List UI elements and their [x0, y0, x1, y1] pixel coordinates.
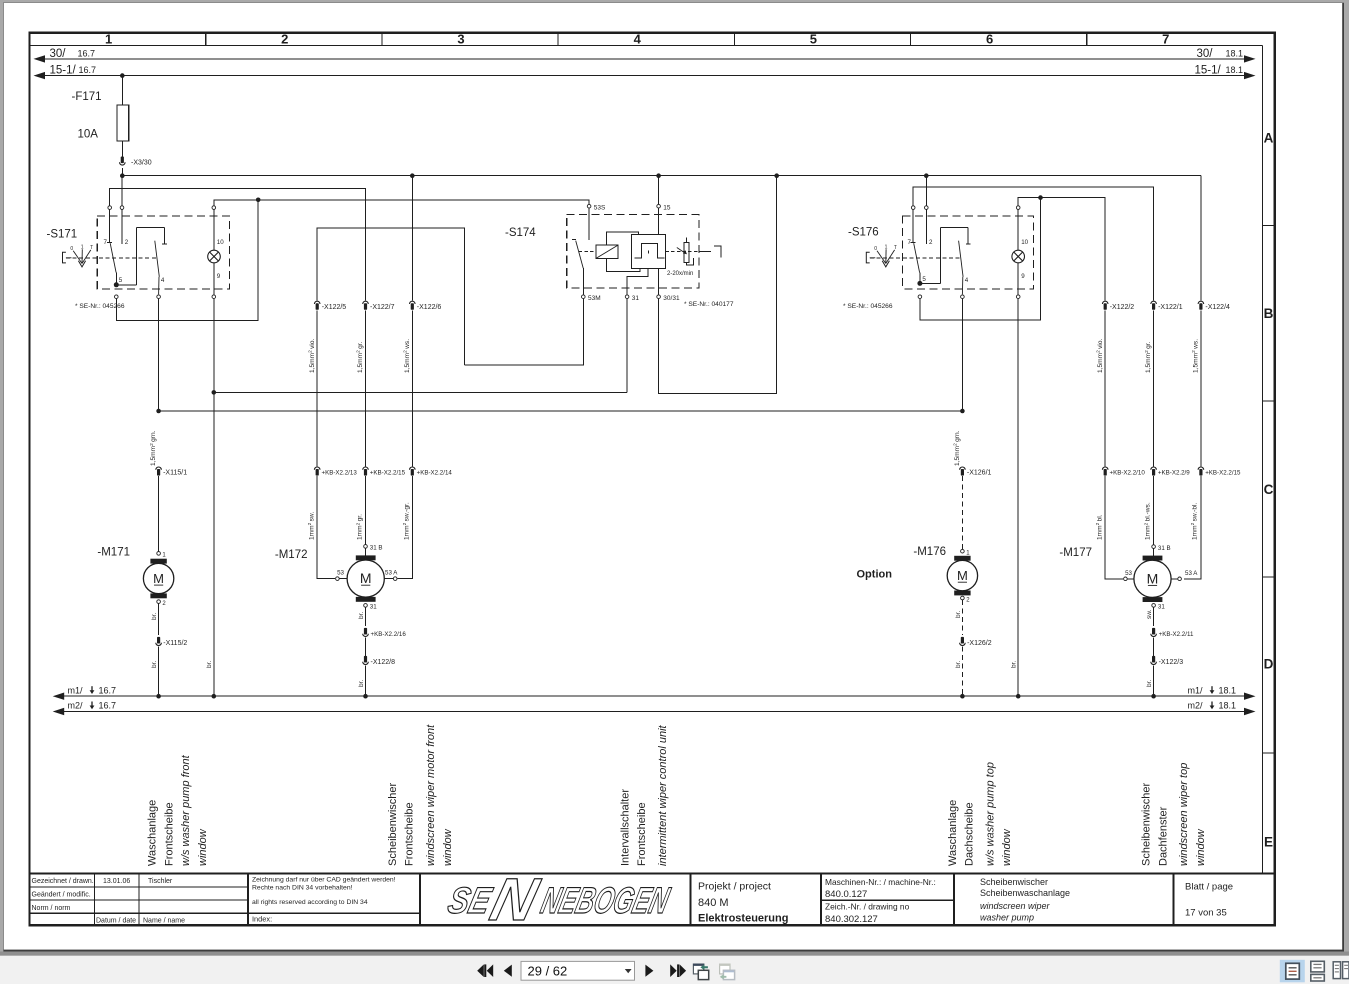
svg-text:1,5mm2 vio.: 1,5mm2 vio.: [307, 338, 315, 373]
junction S176 pin5: [917, 281, 922, 286]
rail m1 left arrow: [53, 693, 64, 700]
svg-text:Option: Option: [857, 569, 893, 581]
title block drawn row: [32, 878, 186, 924]
junction bus30 X122/6: [410, 173, 415, 178]
svg-text:M: M: [153, 571, 164, 586]
svg-text:13.01.06: 13.01.06: [103, 878, 130, 885]
svg-text:Intervallschalter: Intervallschalter: [619, 789, 631, 866]
S176 contact 7-5: [910, 210, 920, 284]
wire X115/1 to M171: [158, 476, 160, 551]
svg-text:m1/: m1/: [1188, 685, 1204, 695]
svg-text:840.302.127: 840.302.127: [825, 914, 878, 925]
S174 output step symbol: [699, 246, 721, 258]
svg-text:7: 7: [1162, 32, 1169, 47]
svg-text:window: window: [442, 828, 454, 866]
svg-text:4: 4: [634, 32, 642, 47]
svg-text:-S171: -S171: [47, 229, 78, 241]
svg-text:-X122/3: -X122/3: [1159, 659, 1184, 666]
wire KB15 to M177 pin53A: [1184, 476, 1201, 579]
junction m1 M176: [960, 694, 965, 699]
svg-text:53 A: 53 A: [385, 570, 398, 577]
svg-text:30/31: 30/31: [663, 295, 680, 302]
svg-text:C: C: [1264, 482, 1274, 497]
wire KB9 to M177 pin31B: [1153, 476, 1155, 544]
wire M172 pin31 down: [365, 607, 367, 626]
wire pin53 stub: [340, 578, 348, 580]
connector -X122/7: [363, 301, 369, 310]
Sennebogen logo: [441, 866, 677, 933]
svg-text:30/: 30/: [50, 48, 67, 60]
junction bus30 at fuse: [120, 173, 125, 178]
toolbar separator band: [0, 952, 1349, 956]
sheet shadow edge bottom: [4, 950, 1345, 952]
S174 pulse waveform: [634, 243, 664, 258]
switch S176 enclosure dashed: [903, 216, 1034, 289]
rail 30 left label: [50, 48, 96, 60]
wire X122/3 to rail m1: [1153, 666, 1155, 697]
wire pin31 horizontal to lamp9 net: [214, 391, 627, 393]
svg-text:Datum / date: Datum / date: [96, 917, 136, 924]
motor M171: [143, 559, 173, 599]
M171 pin1 terminal: [157, 552, 161, 556]
wire M177 pin31 down: [1153, 607, 1155, 626]
svg-text:Zeich.-Nr. / drawing no: Zeich.-Nr. / drawing no: [825, 902, 910, 912]
svg-text:1,5mm2 vio.: 1,5mm2 vio.: [1095, 338, 1103, 373]
svg-text:Name / name: Name / name: [143, 917, 185, 924]
svg-text:Tischler: Tischler: [148, 878, 173, 885]
junction bus30 S176 pin2: [924, 173, 929, 178]
svg-text:br.: br.: [1146, 680, 1153, 687]
wire X126/2 to rail dashed: [961, 647, 963, 697]
svg-text:1: 1: [81, 244, 84, 250]
junction option link left: [156, 409, 161, 414]
svg-text:br.: br.: [1010, 661, 1017, 668]
svg-text:1,5mm2 grn.: 1,5mm2 grn.: [953, 430, 961, 466]
wire option link S171 pin4 to S176 pin4: [159, 410, 963, 412]
M177 pin31 terminal: [1152, 604, 1156, 608]
wire lamp bottom: [213, 263, 215, 295]
S171 pin9 bottom terminal: [212, 295, 216, 299]
wire lamp9 net down to rail: [213, 299, 215, 696]
svg-text:Waschanlage: Waschanlage: [947, 800, 959, 866]
wire S176 lamp top: [1017, 210, 1019, 251]
svg-text:31 B: 31 B: [1158, 545, 1171, 552]
svg-text:m2/: m2/: [1188, 701, 1204, 711]
svg-text:intermittent wiper control uni: intermittent wiper control unit: [657, 724, 669, 866]
connector -X3/30: [120, 157, 126, 166]
svg-text:18.1: 18.1: [1226, 49, 1244, 59]
S174 pin31 terminal: [625, 295, 629, 299]
connector +KB-X2.2/10: [1102, 467, 1108, 476]
svg-text:Scheibenwischer: Scheibenwischer: [1141, 783, 1153, 866]
svg-text:2: 2: [281, 32, 288, 47]
wire X122/2 down: [1104, 310, 1106, 466]
column ruler tick marks: [206, 33, 1087, 46]
toolbar background: [0, 956, 1349, 984]
svg-text:Scheibenwischer: Scheibenwischer: [980, 877, 1048, 887]
svg-text:53: 53: [1125, 570, 1132, 577]
wire S171 pin5 loop under box: [116, 200, 258, 321]
wire relay top loop: [607, 232, 639, 245]
svg-text:window: window: [1001, 828, 1013, 866]
svg-text:windscreen wiper motor front: windscreen wiper motor front: [425, 724, 437, 866]
connector -X122/3: [1151, 656, 1157, 665]
rail m1 left label: [68, 685, 117, 695]
svg-text:9: 9: [1021, 273, 1025, 280]
S176 pin2 top terminal: [925, 206, 929, 210]
wire X3/30 to bus30: [121, 168, 123, 176]
junction bus30 30/31 riser: [774, 173, 779, 178]
connector -X115/1: [156, 467, 162, 476]
S171 pin4 bottom terminal: [157, 295, 161, 299]
svg-text:w/s washer pump front: w/s washer pump front: [180, 754, 192, 866]
svg-text:windscreen wiper: windscreen wiper: [980, 901, 1051, 911]
svg-text:Frontscheibe: Frontscheibe: [404, 802, 416, 866]
svg-text:-X126/1: -X126/1: [967, 470, 992, 477]
svg-text:M: M: [1147, 570, 1159, 586]
svg-text:18.1: 18.1: [1219, 685, 1237, 695]
connector -X126/1: [960, 467, 966, 476]
frame inner top ruler line: [30, 45, 1263, 47]
S174 pulse generator box: [631, 234, 665, 268]
svg-text:1,5mm2 gr.: 1,5mm2 gr.: [1144, 341, 1152, 373]
toolbar single page view button active: [1280, 960, 1305, 983]
svg-text:53 A: 53 A: [1185, 570, 1198, 577]
wire S176 pin7 to X122/1 route: [913, 187, 1153, 301]
svg-text:1,5mm2 ws.: 1,5mm2 ws.: [403, 339, 411, 373]
svg-text:16.7: 16.7: [99, 701, 117, 711]
motor M176: [947, 556, 977, 596]
svg-text:B: B: [1264, 306, 1274, 321]
svg-text:-X122/7: -X122/7: [370, 304, 395, 311]
junction 53S line loop: [256, 198, 261, 203]
svg-text:2-20x/min: 2-20x/min: [667, 271, 693, 277]
svg-text:53: 53: [337, 570, 344, 577]
svg-text:-F171: -F171: [72, 91, 102, 103]
wire S176 pin5 loop under box: [920, 198, 1041, 320]
M177 pin53A terminal: [1178, 577, 1182, 581]
svg-text:br.: br.: [955, 661, 962, 668]
svg-text:1mm2 gr.: 1mm2 gr.: [355, 514, 363, 540]
svg-text:Geändert / modific.: Geändert / modific.: [32, 892, 91, 899]
wire KB14 to M172 pin53A: [397, 476, 412, 578]
M172 pin53 terminal: [336, 577, 340, 581]
wire S176 pin2 from bus30: [925, 176, 927, 206]
S176 contact 2-4 bridge: [920, 228, 971, 295]
svg-text:+KB-X2.2/14: +KB-X2.2/14: [417, 470, 453, 477]
svg-text:1,5mm2 ws.: 1,5mm2 ws.: [1191, 339, 1199, 373]
svg-text:Frontscheibe: Frontscheibe: [636, 802, 648, 866]
wire S171 pin4 down: [158, 299, 160, 411]
title block top border: [30, 872, 1275, 874]
connector +KB-X2.2/9: [1151, 467, 1157, 476]
svg-text:-X3/30: -X3/30: [131, 160, 152, 167]
junction rail 15-1 fuse tap: [120, 73, 125, 78]
svg-text:br.: br.: [358, 680, 365, 687]
svg-text:18.1: 18.1: [1219, 701, 1237, 711]
svg-text:30/: 30/: [1197, 48, 1214, 60]
title block rights cell: [252, 877, 396, 924]
wire rail to fuse: [121, 76, 123, 105]
svg-text:29 / 62: 29 / 62: [528, 964, 568, 979]
svg-text:br.: br.: [151, 613, 158, 620]
junction bus30 S174 pin15: [656, 173, 661, 178]
caption wiper top group: [1141, 763, 1207, 866]
svg-text:31 B: 31 B: [370, 545, 383, 552]
svg-text:window: window: [1195, 828, 1207, 866]
rail m1: [64, 695, 1245, 697]
S174 output dashed link: [665, 250, 698, 252]
M177 pin31B terminal: [1152, 545, 1156, 549]
S174 actuator dashed: [579, 250, 596, 252]
wire S176 pin4 down: [961, 299, 963, 411]
wire relay bottom loop: [607, 258, 640, 271]
svg-text:+KB-X2.2/15: +KB-X2.2/15: [370, 470, 406, 477]
svg-text:* SE-Nr.: 045266: * SE-Nr.: 045266: [75, 303, 125, 310]
rail 30 right label: [1197, 48, 1244, 60]
rail 30 right arrow: [1244, 55, 1256, 62]
row ruler tick marks right: [1262, 226, 1275, 754]
title block page cell: [1185, 882, 1233, 919]
M171 pin2 terminal: [157, 600, 161, 604]
junction m1 lamp9 net: [212, 694, 217, 699]
svg-text:840.0.127: 840.0.127: [825, 889, 867, 900]
toolbar previous page button: [504, 965, 512, 977]
connector -X122/8: [363, 656, 369, 665]
svg-text:1: 1: [885, 244, 888, 250]
toolbar first page button: [477, 964, 493, 977]
svg-text:NEBOGEN: NEBOGEN: [537, 880, 674, 921]
connector -X122/4: [1198, 301, 1204, 310]
svg-text:br.: br.: [151, 661, 158, 668]
connector -X122/2: [1102, 301, 1108, 310]
svg-text:2: 2: [929, 239, 933, 246]
toolbar continuous view button: [1311, 961, 1325, 981]
toolbar page number box: [521, 961, 635, 980]
svg-text:Dachfenster: Dachfenster: [1157, 806, 1169, 866]
svg-text:1mm2 sw.: 1mm2 sw.: [307, 512, 315, 540]
svg-text:-X122/1: -X122/1: [1158, 304, 1183, 311]
S171 pin10 top terminal: [212, 206, 216, 210]
rail 15-1 right arrow: [1244, 72, 1256, 79]
toolbar next page button: [645, 965, 653, 977]
svg-text:10: 10: [217, 239, 224, 246]
motor M172: [347, 555, 384, 601]
svg-text:window: window: [197, 828, 209, 866]
wire M177 pin53 stub: [1128, 578, 1134, 580]
svg-text:16.7: 16.7: [79, 65, 97, 75]
svg-text:18.1: 18.1: [1226, 65, 1244, 75]
rail m2 left arrow: [53, 708, 64, 715]
S176 pin10 top terminal: [1016, 206, 1020, 210]
svg-text:53M: 53M: [588, 295, 601, 302]
svg-text:10A: 10A: [78, 129, 99, 141]
toolbar facing pages button: [1333, 962, 1349, 979]
connector +KB-X2.2/15 right: [1198, 467, 1204, 476]
fuse F171: [117, 105, 129, 141]
wire S176 pin2 inside: [925, 210, 927, 244]
wire pin31B stub: [365, 548, 367, 555]
svg-text:-X115/2: -X115/2: [163, 640, 187, 647]
S176 pin5 bottom terminal: [918, 295, 922, 299]
svg-text:* SE-Nr.: 040177: * SE-Nr.: 040177: [684, 301, 734, 308]
wire pin15 into box: [658, 208, 660, 234]
svg-text:-S174: -S174: [505, 227, 536, 239]
connector -X115/2: [156, 637, 162, 646]
wire KB10 to M177 pin53: [1105, 476, 1123, 579]
svg-text:2: 2: [125, 239, 129, 246]
svg-text:31: 31: [632, 295, 640, 302]
svg-text:T: T: [90, 245, 93, 251]
svg-text:Scheibenwischer: Scheibenwischer: [387, 783, 399, 866]
junction lamp9 net: [212, 390, 217, 395]
rail 15-1 left arrow: [34, 72, 46, 79]
wire X115/2 to rail m1: [158, 647, 160, 697]
svg-text:-X122/2: -X122/2: [1110, 304, 1135, 311]
svg-text:T: T: [894, 245, 897, 251]
svg-text:-X122/5: -X122/5: [322, 304, 347, 311]
svg-text:Scheibenwaschanlage: Scheibenwaschanlage: [980, 888, 1070, 898]
S174 internal contact: [572, 239, 584, 294]
row letters A-E: [1264, 131, 1274, 850]
wire M171 pin2 down: [158, 604, 160, 635]
wire 53M to X122/5 link: [464, 299, 583, 365]
switch S171 enclosure dashed: [97, 216, 229, 289]
svg-text:br.: br.: [955, 611, 962, 618]
svg-text:10: 10: [1021, 239, 1028, 246]
M176 pin1 terminal: [961, 549, 965, 553]
wire X126/1 to M176 dashed: [961, 476, 963, 549]
svg-text:-X122/4: -X122/4: [1205, 304, 1230, 311]
wire KB15 to M172 pin31B: [365, 476, 367, 544]
svg-text:-X122/8: -X122/8: [371, 659, 396, 666]
svg-text:Index:: Index:: [252, 915, 272, 924]
wire M177 pin31B stub: [1153, 549, 1155, 556]
S174 variable resistor: [677, 237, 694, 265]
S176 pilot lamp: [1012, 250, 1025, 263]
svg-text:53S: 53S: [594, 204, 606, 211]
svg-text:Zeichnung darf nur über CAD g: Zeichnung darf nur über CAD geändert wer…: [252, 877, 396, 884]
S176 pin7 top terminal: [911, 206, 915, 210]
svg-text:Waschanlage: Waschanlage: [147, 800, 159, 866]
svg-text:br.: br.: [206, 661, 213, 668]
svg-text:1: 1: [105, 32, 112, 47]
caption wiper motor front group: [387, 724, 454, 866]
wire M176 pin2 down dashed: [961, 600, 963, 635]
svg-text:A: A: [1264, 131, 1274, 146]
motor M177: [1134, 556, 1171, 602]
svg-text:windscreen wiper top: windscreen wiper top: [1178, 763, 1190, 866]
wire X122/1 down: [1153, 310, 1155, 466]
rail m1 right label: [1188, 685, 1237, 695]
wire bus 30 horizontal: [122, 175, 1201, 177]
connector -X122/6: [410, 301, 416, 310]
wire fuse to X3/30: [121, 141, 123, 157]
wire S176 pin10 to X122/2 route: [1018, 198, 1105, 301]
svg-text:+KB-X2.2/11: +KB-X2.2/11: [1159, 631, 1194, 638]
M177 pin53 terminal: [1124, 577, 1128, 581]
svg-text:-M176: -M176: [913, 546, 946, 558]
title block description cell: [980, 877, 1070, 923]
wire S176 lamp9 down to rail: [1017, 299, 1019, 696]
svg-text:-M177: -M177: [1059, 547, 1092, 559]
wire bus30 to pin15: [658, 176, 660, 205]
S171 contact 2-4 bridge: [116, 228, 167, 295]
svg-text:16.7: 16.7: [99, 685, 117, 695]
S176 actuator dashed link: [870, 257, 960, 259]
M172 pin53A terminal: [393, 577, 397, 581]
wire pin53A stub: [384, 578, 393, 580]
svg-text:+KB-X2.2/10: +KB-X2.2/10: [1110, 470, 1146, 477]
wire pin31 route inside: [627, 269, 648, 295]
svg-text:5: 5: [922, 276, 926, 283]
svg-text:17 von 35: 17 von 35: [1185, 908, 1227, 919]
svg-text:Blatt / page: Blatt / page: [1185, 882, 1233, 893]
S171 pin5 bottom terminal: [115, 295, 119, 299]
svg-text:-X122/6: -X122/6: [417, 304, 442, 311]
svg-text:Norm / norm: Norm / norm: [32, 905, 71, 912]
S174 relay coil: [596, 245, 618, 258]
S174 pin53S terminal: [587, 204, 591, 208]
svg-text:6: 6: [986, 32, 993, 47]
svg-text:+KB-X2.2/16: +KB-X2.2/16: [371, 631, 407, 638]
connector +KB-X2.2/11: [1151, 628, 1157, 637]
svg-text:+KB-X2.2/15: +KB-X2.2/15: [1205, 470, 1241, 477]
wire X122/8 to rail m1: [365, 666, 367, 697]
svg-text:0: 0: [70, 246, 73, 252]
wire X122/5 down: [316, 310, 318, 466]
wire bus30 to X122/6: [411, 176, 413, 301]
wire S176 lamp bottom: [1017, 263, 1019, 295]
svg-text:3: 3: [457, 32, 464, 47]
connector -X126/2: [960, 637, 966, 646]
rail 15-1 right label: [1195, 64, 1244, 76]
M172 pin31B terminal: [364, 545, 368, 549]
caption washer pump front group: [147, 754, 209, 866]
M172 pin31 terminal: [364, 604, 368, 608]
connector +KB-X2.2/13: [314, 467, 320, 476]
svg-text:M: M: [957, 568, 968, 583]
rail 30 top: [45, 58, 1244, 60]
svg-text:m2/: m2/: [68, 701, 84, 711]
rail m2 right arrow: [1244, 708, 1256, 715]
S171 contact 7-5: [107, 210, 116, 285]
svg-text:-M171: -M171: [97, 547, 130, 559]
svg-text:4: 4: [161, 277, 165, 284]
rail m2 right label: [1188, 701, 1237, 711]
S171 actuator dashed link: [66, 257, 156, 259]
svg-text:-X115/1: -X115/1: [163, 470, 187, 477]
S176 pin9 bottom terminal: [1016, 295, 1020, 299]
title block grid lines: [30, 874, 1174, 926]
wire X122/5 up route to 53M: [317, 228, 464, 365]
rail 15-1 left label: [50, 64, 97, 76]
column numbers 1-7: [105, 32, 1169, 47]
svg-text:Elektrosteuerung: Elektrosteuerung: [698, 913, 788, 925]
S171 pin2 top terminal: [120, 206, 124, 210]
wire pin2 inside: [121, 210, 123, 244]
svg-text:5: 5: [119, 277, 123, 284]
svg-text:-X126/2: -X126/2: [967, 640, 992, 647]
wire X122/4 down: [1200, 310, 1202, 466]
S176 lever symbol: [866, 244, 897, 267]
M176 pin2 terminal: [961, 596, 965, 600]
S171 pilot lamp: [208, 250, 221, 263]
junction S176 lamp line: [1038, 195, 1043, 200]
svg-text:E: E: [1264, 835, 1273, 850]
connector -X122/1: [1151, 301, 1157, 310]
connector +KB-X2.2/15: [363, 467, 369, 476]
